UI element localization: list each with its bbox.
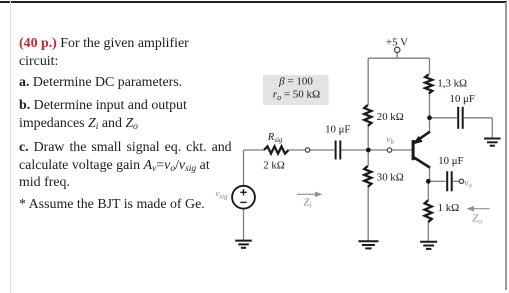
svg-text:β = 100: β = 100	[278, 76, 313, 88]
svg-text:vsig: vsig	[215, 189, 228, 200]
svg-text:30 kΩ: 30 kΩ	[377, 171, 404, 183]
svg-text:Zi: Zi	[304, 197, 312, 209]
svg-text:Rsig: Rsig	[267, 132, 283, 144]
svg-text:Zo: Zo	[472, 214, 482, 226]
svg-text:vb: vb	[386, 135, 394, 146]
svg-text:10 μF: 10 μF	[450, 93, 475, 105]
svg-text:20 kΩ: 20 kΩ	[377, 111, 404, 123]
svg-text:1,3 kΩ: 1,3 kΩ	[437, 78, 467, 90]
svg-text:2 kΩ: 2 kΩ	[263, 160, 285, 172]
svg-text:10 μF: 10 μF	[438, 155, 463, 167]
svg-text:10 μF: 10 μF	[325, 123, 350, 135]
svg-text:+5 V: +5 V	[386, 36, 408, 48]
svg-text:1 kΩ: 1 kΩ	[438, 202, 460, 214]
svg-text:vo: vo	[464, 178, 472, 189]
